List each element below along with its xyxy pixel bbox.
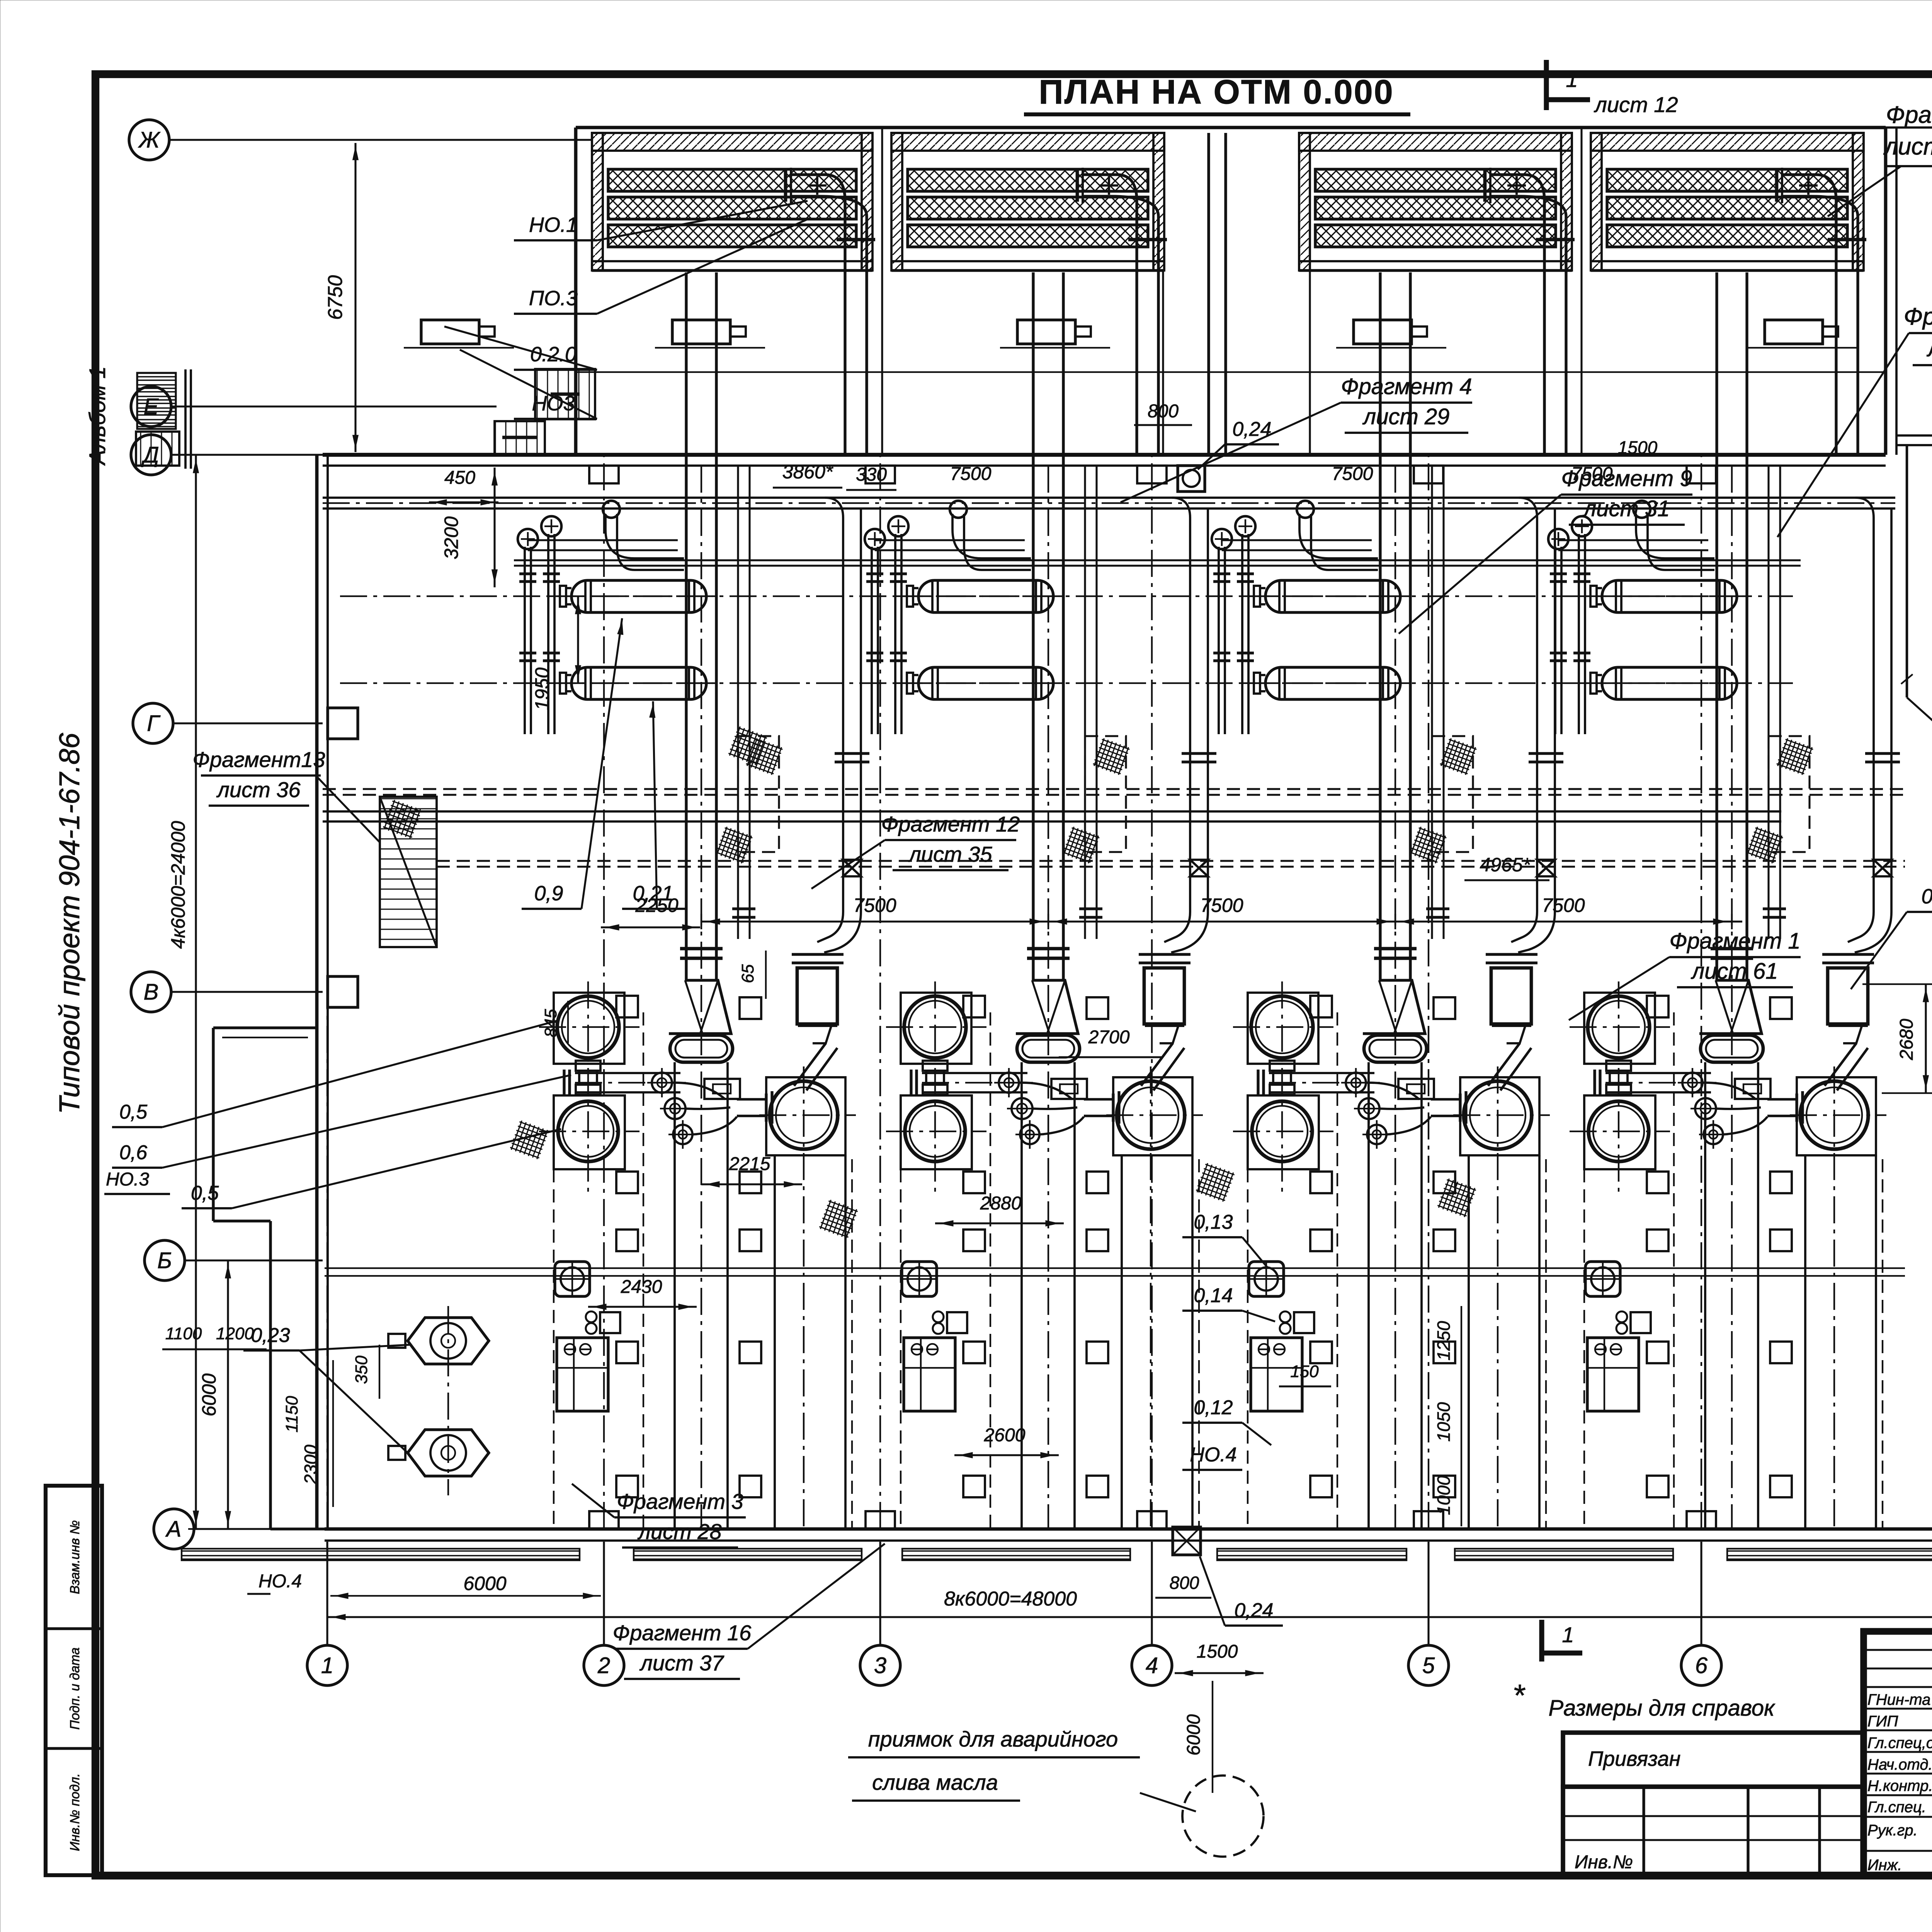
svg-text:0.7: 0.7	[1921, 885, 1932, 908]
svg-text:Гл.спец,от: Гл.спец,от	[1867, 1735, 1932, 1752]
svg-text:Инв.№ подл.: Инв.№ подл.	[68, 1773, 82, 1851]
svg-text:6750: 6750	[324, 275, 347, 320]
svg-text:1250: 1250	[1434, 1321, 1454, 1361]
svg-text:2215: 2215	[729, 1154, 770, 1174]
svg-text:лист 28: лист 28	[637, 1519, 721, 1544]
svg-text:НО.4: НО.4	[259, 1571, 302, 1592]
svg-text:3200: 3200	[440, 516, 462, 559]
svg-text:1000: 1000	[1434, 1475, 1454, 1515]
svg-text:Фрагмент13: Фрагмент13	[192, 747, 325, 772]
svg-text:1050: 1050	[1434, 1402, 1454, 1442]
svg-text:Г: Г	[147, 711, 161, 736]
svg-text:5: 5	[1422, 1653, 1435, 1678]
svg-text:1500: 1500	[1197, 1641, 1238, 1662]
svg-text:лист 12: лист 12	[1594, 92, 1678, 117]
svg-text:1100: 1100	[165, 1324, 202, 1343]
svg-text:ГНин-та: ГНин-та	[1867, 1691, 1930, 1708]
svg-text:2700: 2700	[1088, 1027, 1130, 1048]
svg-text:6000: 6000	[1184, 1714, 1204, 1755]
svg-text:Ж: Ж	[138, 128, 161, 153]
svg-text:800: 800	[1170, 1573, 1199, 1593]
svg-text:0,6: 0,6	[119, 1141, 147, 1164]
svg-text:Фрагмент 12: Фрагмент 12	[881, 812, 1020, 836]
svg-text:7500: 7500	[853, 895, 896, 916]
svg-text:350: 350	[352, 1355, 371, 1384]
svg-text:0,12: 0,12	[1194, 1396, 1233, 1419]
svg-text:150: 150	[1290, 1362, 1319, 1381]
svg-text:6000: 6000	[463, 1573, 506, 1594]
svg-text:А: А	[165, 1517, 182, 1542]
svg-text:*: *	[1512, 1678, 1526, 1713]
svg-text:листы 61,27: листы 61,27	[1883, 133, 1932, 160]
svg-text:0,14: 0,14	[1194, 1284, 1233, 1307]
svg-text:2680: 2680	[1896, 1019, 1917, 1060]
svg-text:450: 450	[444, 468, 475, 488]
svg-text:лист 31: лист 31	[1583, 496, 1670, 521]
svg-text:7500: 7500	[1200, 895, 1243, 916]
svg-text:0,9: 0,9	[534, 882, 563, 905]
svg-text:65: 65	[738, 964, 757, 983]
svg-text:НО.1: НО.1	[529, 213, 578, 236]
svg-text:Размеры для справок: Размеры для справок	[1549, 1696, 1776, 1721]
svg-text:2430: 2430	[621, 1277, 662, 1297]
svg-text:0,5: 0,5	[119, 1101, 148, 1123]
svg-text:Н.контр.: Н.контр.	[1867, 1777, 1932, 1794]
svg-text:ПО.3: ПО.3	[529, 287, 578, 310]
svg-text:7500: 7500	[1542, 895, 1585, 916]
svg-text:лист 36: лист 36	[216, 777, 301, 802]
svg-text:1200: 1200	[216, 1324, 254, 1343]
svg-text:800: 800	[1148, 401, 1179, 422]
svg-text:6: 6	[1695, 1653, 1708, 1678]
svg-text:1: 1	[1566, 67, 1578, 92]
svg-text:Подп. и дата: Подп. и дата	[68, 1648, 82, 1730]
svg-text:Инв.№: Инв.№	[1575, 1852, 1633, 1872]
svg-text:Фрагмент 9: Фрагмент 9	[1561, 466, 1692, 491]
svg-text:НО.3: НО.3	[106, 1169, 149, 1190]
svg-text:Фрагмент 5: Фрагмент 5	[1904, 303, 1932, 330]
svg-text:1150: 1150	[282, 1396, 301, 1432]
svg-text:0,24: 0,24	[1234, 1599, 1273, 1622]
svg-text:1: 1	[1562, 1622, 1574, 1647]
svg-text:Взам.инв №: Взам.инв №	[68, 1520, 82, 1594]
svg-text:лист 37: лист 37	[639, 1651, 724, 1675]
svg-text:330: 330	[856, 464, 887, 485]
svg-text:Б: Б	[157, 1248, 172, 1273]
svg-text:845: 845	[541, 1009, 560, 1037]
svg-text:Инж.: Инж.	[1867, 1857, 1902, 1874]
svg-text:0,13: 0,13	[1194, 1211, 1233, 1233]
svg-text:приямок для аварийного: приямок для аварийного	[868, 1727, 1118, 1751]
svg-text:слива масла: слива масла	[872, 1770, 998, 1794]
svg-text:Гл.спец.: Гл.спец.	[1867, 1799, 1926, 1816]
svg-text:Фрагмент 3: Фрагмент 3	[617, 1489, 743, 1514]
svg-text:Альбом 1: Альбом 1	[85, 366, 110, 466]
svg-text:6000: 6000	[198, 1373, 220, 1416]
svg-text:7500: 7500	[1332, 464, 1373, 484]
svg-text:0,23: 0,23	[251, 1324, 290, 1347]
svg-text:Фрагмент 1: Фрагмент 1	[1669, 929, 1800, 954]
svg-text:2600: 2600	[984, 1425, 1026, 1446]
svg-text:лист 61: лист 61	[1691, 959, 1778, 984]
svg-text:4965*: 4965*	[1480, 854, 1531, 876]
svg-text:2300: 2300	[301, 1444, 321, 1485]
svg-text:Фрагмент 2: Фрагмент 2	[1886, 102, 1932, 128]
svg-text:Типовой проект 904-1-67.86: Типовой проект 904-1-67.86	[53, 733, 85, 1114]
svg-text:лист 35: лист 35	[908, 842, 992, 866]
svg-text:Нач.отд.: Нач.отд.	[1867, 1756, 1932, 1773]
svg-text:7500: 7500	[950, 464, 992, 484]
svg-text:лист 29: лист 29	[1362, 404, 1450, 429]
svg-text:лист 29: лист 29	[1927, 335, 1932, 362]
svg-text:Фрагмент 4: Фрагмент 4	[1341, 374, 1472, 399]
svg-text:Рук.гр.: Рук.гр.	[1867, 1822, 1918, 1839]
svg-text:3: 3	[874, 1653, 886, 1678]
svg-text:0,21: 0,21	[633, 882, 673, 905]
svg-text:8к6000=48000: 8к6000=48000	[944, 1588, 1077, 1610]
svg-text:0,24: 0,24	[1232, 418, 1271, 440]
svg-text:1950: 1950	[531, 667, 553, 710]
svg-text:1: 1	[321, 1653, 333, 1678]
svg-text:НО.4: НО.4	[1190, 1444, 1236, 1466]
svg-text:Фрагмент 16: Фрагмент 16	[613, 1621, 752, 1645]
svg-text:Привязан: Привязан	[1588, 1747, 1680, 1770]
svg-text:ГИП: ГИП	[1867, 1713, 1898, 1730]
svg-text:2: 2	[597, 1653, 610, 1678]
svg-text:4: 4	[1146, 1653, 1158, 1678]
svg-text:ПЛАН НА ОТМ 0.000: ПЛАН НА ОТМ 0.000	[1039, 73, 1394, 111]
svg-text:0,5: 0,5	[191, 1182, 219, 1204]
svg-text:В: В	[144, 980, 159, 1005]
svg-text:2880: 2880	[980, 1193, 1022, 1214]
svg-text:3860*: 3860*	[782, 461, 833, 483]
svg-text:4к6000=24000: 4к6000=24000	[167, 821, 189, 949]
